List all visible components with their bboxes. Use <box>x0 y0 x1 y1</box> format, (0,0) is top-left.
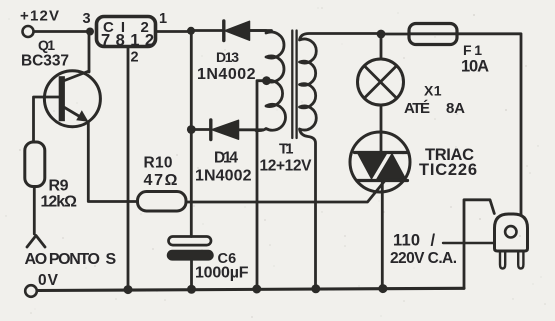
lamp X1 circle <box>358 59 404 105</box>
svg-text:1: 1 <box>159 11 167 27</box>
wire +12V terminal to node A <box>35 30 91 33</box>
node C (lamp / fuse junction) <box>377 30 386 39</box>
svg-text:1N4002: 1N4002 <box>197 66 256 83</box>
node D14 junction <box>187 125 196 134</box>
terminal 0V <box>25 285 37 297</box>
svg-text:110: 110 <box>393 232 420 250</box>
resistor R9 <box>25 142 45 187</box>
wire fuse to right edge and down to plug <box>457 34 521 215</box>
wire center tap to 0V rail <box>257 81 267 289</box>
svg-text:R10: R10 <box>144 155 173 172</box>
plug body <box>495 214 528 251</box>
regulator U1 CI 2 7812 <box>97 17 156 47</box>
svg-text:8A: 8A <box>446 100 465 117</box>
lamp X1 cross <box>364 66 396 98</box>
wire Q1 emitter down to R10 <box>88 122 137 202</box>
transistor Q1 collector stroke <box>65 71 90 81</box>
wire node A down to Q1 collector <box>88 32 91 73</box>
capacitor C6 bottom plate <box>168 251 214 260</box>
junction dot rail x382 (triac MT1) <box>378 284 387 293</box>
wire D13 anode to secondary top <box>250 29 266 32</box>
svg-text:3: 3 <box>83 11 91 27</box>
wire 0V bottom rail <box>38 288 465 290</box>
svg-text:10A: 10A <box>461 58 489 76</box>
wire node D14 to D14 cathode <box>191 128 209 131</box>
transistor Q1 emitter stroke with arrow <box>65 108 89 122</box>
triac down triangle <box>358 153 388 179</box>
svg-text:12+12V: 12+12V <box>260 158 313 175</box>
transformer T1 secondary winding <box>248 31 286 131</box>
svg-text:ATÉ: ATÉ <box>404 100 430 117</box>
svg-text:D13: D13 <box>216 49 239 65</box>
junction dot rail x191 <box>187 285 196 294</box>
wire C6 to rail <box>190 260 193 289</box>
terminal +12V <box>23 26 34 37</box>
transistor Q1 base bar <box>59 76 65 121</box>
capacitor C6 top plate <box>169 237 212 246</box>
rail node B down through D14 node to C6 <box>190 31 193 237</box>
arrow chevron AO PONTO S <box>27 236 45 248</box>
transformer T1 center tap dot <box>262 76 271 85</box>
wire rail up to plug left <box>464 200 494 288</box>
junction dot rail x315 <box>311 284 320 293</box>
svg-text:X1: X1 <box>424 83 442 99</box>
svg-text:F1: F1 <box>463 42 482 58</box>
diode D13 <box>224 21 250 41</box>
svg-text:BC337: BC337 <box>21 53 69 70</box>
wire node C down to lamp X1 <box>380 34 383 58</box>
fuse F1 <box>409 24 457 45</box>
node A (collector / CI pin3 junction) <box>86 28 94 36</box>
triac MT2 lead into top bar <box>380 132 383 153</box>
svg-text:0V: 0V <box>38 272 59 289</box>
svg-text:47Ω: 47Ω <box>144 172 178 189</box>
svg-text:/: / <box>431 232 436 250</box>
svg-text:220V C.A.: 220V C.A. <box>390 250 457 267</box>
svg-text:1N4002: 1N4002 <box>195 168 252 185</box>
junction dot rail x255 <box>252 285 261 294</box>
plug inner circle <box>505 226 516 237</box>
wire R9 bottom to point S arrow <box>33 187 36 234</box>
svg-text:2: 2 <box>131 50 139 66</box>
wire lamp X1 to triac MT2 <box>380 106 383 131</box>
svg-text:Q1: Q1 <box>38 37 55 53</box>
wire node B to D13 cathode <box>191 29 222 32</box>
wire node C to fuse <box>381 33 409 36</box>
diode D14 <box>211 120 239 140</box>
wire D14 anode to secondary bottom <box>239 128 263 131</box>
triac circle <box>350 132 410 192</box>
svg-text:AO PONTO: AO PONTO <box>25 251 101 268</box>
svg-text:+12V: +12V <box>20 8 59 25</box>
triac up triangle <box>377 154 407 180</box>
transformer T1 primary winding <box>300 34 382 290</box>
svg-text:S: S <box>106 251 117 268</box>
triac bottom bar <box>357 179 408 182</box>
wire CI pin2 ground down to 0V rail <box>127 47 130 290</box>
junction dot rail x128 <box>124 285 133 294</box>
transistor Q1 circle <box>44 71 100 127</box>
plug prong left <box>500 252 505 269</box>
svg-text:12kΩ: 12kΩ <box>41 194 78 211</box>
svg-text:TIC226: TIC226 <box>419 161 477 179</box>
wire Q1 base lead <box>34 97 59 142</box>
node B (rectifier output / CI input) <box>187 27 195 35</box>
transformer T1 core <box>292 31 296 139</box>
svg-text:D14: D14 <box>214 150 238 167</box>
svg-text:1000µF: 1000µF <box>195 265 249 282</box>
wire R10 to triac gate <box>186 181 385 203</box>
svg-text:T1: T1 <box>279 142 294 158</box>
svg-text:R9: R9 <box>49 178 69 195</box>
resistor R10 <box>138 192 187 212</box>
triac MT1 lead to rail <box>381 181 384 289</box>
wire CI pin1 to node B <box>156 30 191 33</box>
leader line 110/220 to plug <box>443 242 493 244</box>
triac top bar <box>355 151 408 154</box>
plug prong right <box>518 252 523 269</box>
